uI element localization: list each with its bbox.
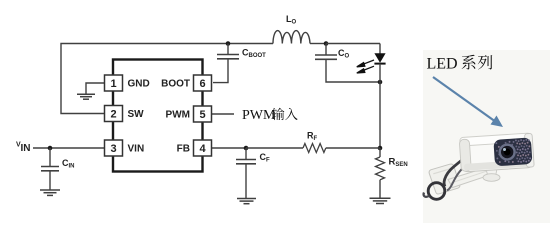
- pin 6: [194, 75, 212, 91]
- photo background: [423, 50, 550, 223]
- camera front face: [493, 137, 532, 166]
- camera bracket arm: [448, 168, 490, 188]
- ground (pin1 GND): [77, 94, 95, 99]
- svg-text:LO: LO: [286, 14, 297, 26]
- wire C0 node to LED: [326, 43, 380, 45]
- svg-text:1: 1: [110, 78, 116, 90]
- wire top rail to inductor: [228, 43, 273, 45]
- ground (CIN): [40, 190, 60, 195]
- svg-text:CO: CO: [338, 48, 350, 60]
- svg-text:2: 2: [110, 108, 116, 120]
- svg-text:CF: CF: [260, 152, 271, 164]
- LED D1: [374, 44, 385, 64]
- wire VIN to pin3: [33, 147, 104, 149]
- inductor L0: [273, 31, 310, 44]
- svg-text:CIN: CIN: [62, 158, 75, 170]
- svg-text:6: 6: [199, 78, 205, 90]
- node C0 junction: [324, 41, 329, 46]
- pin 4: [194, 140, 212, 156]
- svg-text:IN: IN: [21, 143, 31, 154]
- pin 3: [105, 140, 123, 156]
- svg-text:GND: GND: [128, 78, 150, 89]
- svg-text:5: 5: [199, 109, 205, 121]
- pin 2: [105, 106, 123, 122]
- camera cables: [444, 159, 463, 187]
- svg-text:BOOT: BOOT: [161, 78, 190, 89]
- camera wall plate: [429, 164, 460, 194]
- svg-text:SW: SW: [128, 109, 145, 120]
- wire RF to RSEN node: [326, 147, 380, 149]
- svg-text:FB: FB: [177, 143, 190, 154]
- node RF/RSEN junction: [378, 146, 383, 151]
- ground (CF): [237, 199, 256, 204]
- node CBOOT junction: [226, 41, 231, 46]
- capacitor CIN: [41, 148, 59, 190]
- wire FB stub to CF node: [211, 147, 246, 149]
- wire LED cathode down to RF/RSEN node: [379, 64, 381, 148]
- capacitor CF: [236, 148, 256, 199]
- capacitor CBOOT: [213, 44, 239, 83]
- arrow to camera: [433, 77, 503, 127]
- pin 1: [105, 75, 123, 91]
- wire GND pin1 stub: [86, 83, 104, 94]
- node CF junction: [244, 146, 249, 151]
- resistor RSEN: [376, 148, 385, 198]
- camera mount neck: [486, 166, 498, 177]
- svg-text:PWM: PWM: [166, 109, 190, 120]
- svg-text:RF: RF: [307, 131, 318, 143]
- wire SW loop: pin2 to left rail to top rail: [61, 44, 228, 114]
- IC U1 body: [113, 60, 203, 172]
- node CIN junction: [48, 146, 53, 151]
- pin 5: [194, 106, 212, 122]
- camera lens: [498, 143, 516, 161]
- ground (RSEN): [370, 198, 391, 203]
- camera photo: [424, 133, 535, 199]
- svg-text:3: 3: [110, 143, 116, 155]
- svg-text:4: 4: [199, 143, 206, 155]
- LED emission arrows: [357, 60, 374, 73]
- resistor RF: [303, 144, 326, 153]
- svg-text:LED: LED: [427, 56, 458, 73]
- camera body: [459, 133, 534, 172]
- svg-text:CBOOT: CBOOT: [242, 48, 266, 60]
- wire inductor to C0 node: [310, 43, 326, 45]
- svg-text:RSEN: RSEN: [389, 157, 408, 169]
- node LED cathode junction: [378, 80, 383, 85]
- svg-text:PWM: PWM: [242, 108, 276, 123]
- wire PWM stub: [211, 113, 234, 115]
- svg-text:VIN: VIN: [128, 143, 145, 154]
- wire CF node to RF: [246, 147, 303, 149]
- capacitor C0: [315, 44, 380, 83]
- cable loop: [428, 183, 445, 200]
- IR leds: [495, 139, 531, 165]
